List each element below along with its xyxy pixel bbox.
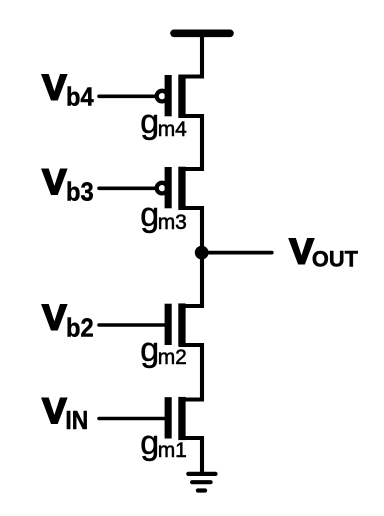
- svg-text:V: V: [42, 392, 67, 431]
- svg-text:g: g: [140, 196, 159, 234]
- wire VDD to gm4 drain: [179, 33, 202, 76]
- wire Vb3 gate: [99, 187, 157, 191]
- label Vb2: [42, 299, 93, 343]
- label gm4: [140, 103, 187, 141]
- svg-text:V: V: [42, 68, 67, 107]
- svg-text:g: g: [140, 424, 159, 462]
- svg-text:b2: b2: [66, 313, 94, 343]
- transistor gm4 (PMOS): [157, 75, 186, 118]
- wire Vb4 gate: [99, 95, 157, 99]
- svg-text:m2: m2: [158, 346, 187, 369]
- svg-text:g: g: [140, 331, 159, 369]
- wire VOUT node to label: [202, 251, 272, 255]
- svg-text:m3: m3: [158, 211, 187, 234]
- svg-text:m1: m1: [158, 439, 187, 462]
- svg-text:b4: b4: [66, 82, 94, 112]
- ground: [188, 474, 215, 491]
- wire VIN gate: [99, 417, 167, 421]
- power rail VDD: [174, 29, 230, 37]
- svg-text:V: V: [42, 163, 67, 202]
- wire Vb2 gate: [99, 323, 167, 327]
- label gm2: [140, 331, 187, 369]
- svg-text:IN: IN: [65, 405, 88, 435]
- label Vb3: [42, 163, 93, 207]
- wire gm2 source to gm1 drain: [179, 345, 202, 400]
- svg-text:m4: m4: [158, 118, 187, 141]
- svg-text:V: V: [289, 232, 314, 271]
- label VIN: [42, 392, 88, 435]
- svg-text:OUT: OUT: [312, 247, 359, 272]
- svg-text:g: g: [140, 103, 159, 141]
- wire gm4 source to gm3 drain: [179, 116, 202, 169]
- wire gm3 source to gm2 drain (through VOUT node): [179, 208, 202, 306]
- label VOUT: [289, 232, 358, 271]
- label gm3: [140, 196, 187, 234]
- label gm1: [140, 424, 187, 462]
- node VOUT junction dot: [195, 246, 209, 260]
- transistor gm1 (NMOS): [165, 397, 186, 440]
- svg-text:b3: b3: [66, 176, 94, 206]
- svg-text:V: V: [42, 299, 67, 338]
- wire gm1 source to ground: [179, 438, 202, 474]
- transistor gm3 (PMOS): [157, 167, 186, 210]
- label Vb4: [42, 68, 94, 111]
- transistor gm2 (NMOS): [165, 303, 186, 346]
